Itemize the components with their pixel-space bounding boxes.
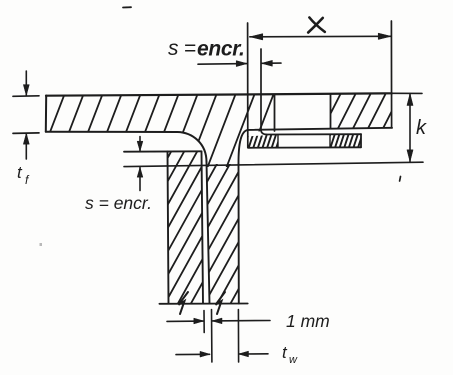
tw dimension line right	[239, 353, 268, 355]
web-flange right fillet	[238, 130, 248, 164]
web right strip left edge	[207, 162, 210, 304]
faint speck	[40, 243, 43, 246]
web bottom break line	[159, 303, 247, 305]
bar dense-left boundary	[277, 135, 279, 148]
1mm extension line short	[203, 311, 205, 333]
bar bottom edge	[248, 146, 361, 149]
web right strip right edge	[238, 164, 240, 304]
flange bottom edge right	[248, 128, 392, 130]
web left strip hatching	[34, 150, 302, 305]
break zigzag 2	[216, 292, 226, 314]
stray comma right	[399, 177, 402, 182]
X arrow left	[250, 34, 263, 40]
left strip left edge	[168, 151, 169, 303]
bar right edge	[360, 134, 362, 147]
flange right edge / X extension line	[390, 21, 392, 128]
bar dense hatching right	[321, 133, 372, 149]
s-top arrow line right	[262, 62, 281, 64]
svg-text:w: w	[289, 354, 298, 366]
dimension X line	[250, 35, 391, 38]
k arrow down	[407, 150, 413, 162]
web-flange left fillet	[177, 132, 206, 162]
break zigzag 1	[179, 292, 189, 314]
k dimension line	[409, 94, 411, 162]
k arrow up	[407, 94, 413, 106]
flange cut-out right vertical	[330, 94, 332, 128]
flange hatching	[17, 93, 312, 168]
web right strip hatching	[74, 162, 322, 305]
tf tick top	[13, 95, 39, 98]
right flange portion hatching	[308, 93, 416, 129]
tf arrow line bottom	[25, 134, 27, 159]
k top extension line	[392, 92, 422, 94]
s-top arrow line left	[198, 63, 247, 66]
1mm dimension line right	[212, 320, 270, 322]
flange left edge	[45, 96, 47, 132]
cut line V1 / X left extension	[247, 23, 249, 148]
flange top edge	[46, 93, 392, 95]
1mm/tw extension line mid	[211, 310, 213, 363]
svg-text:encr.: encr.	[197, 38, 245, 61]
bar dense-right boundary	[329, 135, 331, 148]
k bottom extension line	[124, 162, 423, 166]
svg-text:s = encr.: s = encr.	[85, 193, 152, 213]
s-left arrow line top	[139, 137, 141, 151]
tf tick bottom	[13, 132, 39, 135]
s-left arrow line bottom	[139, 168, 141, 191]
flange bottom edge left	[46, 131, 178, 133]
tw extension line right	[237, 310, 239, 363]
left strip right edge	[202, 151, 204, 303]
flange cut-out left vertical	[274, 94, 276, 131]
left strip top edge + s tick	[124, 150, 202, 152]
cut line V2 with small fillet to bar	[261, 49, 267, 135]
svg-text:k: k	[416, 117, 427, 139]
svg-text:1 mm: 1 mm	[286, 311, 330, 331]
X arrow right	[378, 33, 391, 39]
bar dense hatching left	[239, 134, 290, 149]
tf arrow line top	[25, 71, 27, 95]
stray dash top	[123, 6, 131, 8]
svg-text:s =: s =	[168, 37, 196, 60]
bar top edge	[267, 133, 362, 135]
X label	[308, 18, 325, 33]
tw dimension line left	[176, 353, 210, 355]
1mm dimension line left	[167, 320, 203, 322]
